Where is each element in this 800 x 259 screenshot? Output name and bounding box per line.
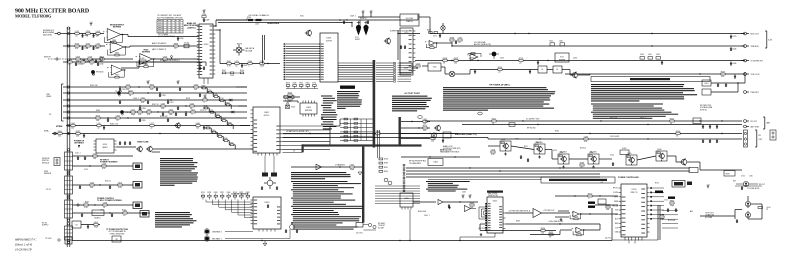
svg-text:VCO: VCO: [560, 57, 564, 59]
capacitor C512: [527, 158, 529, 162]
wire eeprom links: [283, 97, 300, 103]
label RF INJ FROM RF BOARD: [409, 161, 426, 166]
wire ASFIC top to +5V bus: [213, 19, 247, 27]
wire ft row 1: [73, 155, 134, 157]
resistor R241 on bus: [255, 19, 262, 26]
capacitor C273: [175, 112, 177, 116]
label table header TX DIVERSITY: [157, 14, 183, 19]
wire reset row: [52, 133, 253, 134]
label PWR SENSOR: [44, 171, 52, 175]
svg-text:FRAC-N: FRAC-N: [406, 20, 413, 23]
resistor R230: [202, 14, 206, 21]
IC U101 reset: [94, 139, 117, 153]
svg-text:220: 220: [721, 76, 724, 78]
svg-text:C565: C565: [90, 182, 94, 184]
capacitor C247: [241, 64, 247, 68]
wire buffer out: [443, 201, 478, 202]
capacitor C407: [455, 40, 457, 44]
svg-text:R103: R103: [222, 118, 226, 120]
svg-text:L370: L370: [235, 61, 239, 63]
label POWER UP ON RESET: [74, 141, 85, 149]
capacitor C304 polarized: [363, 21, 368, 36]
resistor R278: [194, 84, 198, 91]
diode CR703 harmonic filter: [733, 181, 765, 187]
capacitor C702: [667, 208, 669, 212]
crystal Y301 mcu clock: [264, 177, 276, 189]
resistor R117: [118, 182, 123, 189]
resistor R285: [196, 123, 200, 130]
svg-text:3.4V: 3.4V: [768, 40, 773, 42]
label TX RF OUT to ant: [705, 213, 714, 219]
resistor R113: [102, 163, 106, 170]
svg-text:(CONTROL PWR SET): (CONTROL PWR SET): [443, 148, 461, 150]
wire final chain: [637, 156, 742, 170]
svg-text:uP WATCHDOG A PWR CNTL: uP WATCHDOG A PWR CNTL: [286, 130, 309, 133]
component cluster bar bottom RX BUSY: [356, 223, 386, 235]
resistor R456: [588, 193, 592, 200]
resistor R221: [76, 56, 80, 63]
capacitor cluster bus line 2: [159, 93, 201, 97]
svg-text:R267 1K: R267 1K: [152, 104, 159, 106]
svg-text:RESET LINE: RESET LINE: [137, 142, 149, 144]
connector J402 TRB MOD: [741, 45, 759, 48]
capacitor C252: [75, 62, 81, 66]
box test port: [724, 171, 735, 177]
svg-text:C267: C267: [170, 102, 174, 104]
wire loop filter top: [358, 14, 400, 17]
capacitor C210: [177, 37, 183, 41]
resistor stack RN306: [379, 158, 388, 173]
wire to ant switch: [700, 215, 733, 217]
label speckle bus lines: [90, 85, 206, 126]
wire ant sw loops: [733, 196, 762, 219]
svg-text:GREEN WIRE: GREEN WIRE: [267, 23, 280, 25]
svg-text:ADJ 3dB: ADJ 3dB: [246, 49, 254, 52]
svg-text:L263: L263: [116, 115, 120, 117]
svg-text:18: 18: [443, 63, 445, 65]
label ASFIC RX AUDIO: [152, 42, 167, 51]
svg-text:TX DATA: TX DATA: [115, 90, 123, 93]
svg-text:BOT: BOT: [733, 181, 736, 183]
label U DATA BUS: [335, 164, 346, 167]
capacitor C706: [736, 219, 738, 223]
label MODEM INPUT BUFFER: [110, 25, 125, 29]
resistor network RN303 cascade: [205, 126, 235, 149]
label CUSTOM VERSION: [231, 194, 249, 196]
svg-text:100: 100: [454, 63, 457, 65]
capacitor C511: [520, 155, 522, 159]
resistor R501: [492, 118, 496, 125]
box U601 pwr ctl out: [702, 80, 711, 86]
svg-text:R132: R132: [115, 75, 119, 77]
connector J103: [77, 204, 79, 206]
capacitor C311 bus: [367, 20, 369, 24]
svg-text:R723: R723: [519, 58, 523, 60]
capacitor C110: [77, 156, 79, 160]
svg-text:REF: REF: [615, 223, 618, 225]
svg-text:R454: R454: [541, 228, 545, 230]
notes text numbered list main: [291, 181, 363, 230]
svg-text:(NO CONNECTION): (NO CONNECTION): [158, 36, 175, 38]
label TX 5V: [46, 189, 52, 191]
capacitor C710 top: [741, 186, 743, 190]
resistor R277: [203, 97, 207, 104]
resistor R705: [758, 207, 763, 209]
svg-text:R316: R316: [150, 84, 154, 86]
resistor R203: [86, 31, 90, 38]
wire mod line long: [419, 17, 505, 34]
label bottom mid speckle: [418, 192, 520, 223]
wire u450 to rail: [409, 210, 410, 242]
label DA-780x 3: [590, 151, 597, 154]
svg-text:R448: R448: [144, 64, 148, 66]
svg-text:R428: R428: [443, 58, 447, 60]
svg-text:DA-7805: DA-7805: [536, 141, 543, 144]
dark connector block CR101: [133, 163, 142, 170]
box FL700: [672, 181, 692, 188]
resistor R306: [288, 96, 292, 103]
capacitor C703: [675, 208, 677, 212]
label RX AUDIO RETURN: [160, 59, 180, 62]
ellipse callout marker 2: [418, 116, 422, 119]
wire ft row 5: [73, 212, 151, 213]
IC U451 DAC: [485, 197, 505, 233]
label +3.4V TX: [766, 207, 771, 211]
svg-text:R683: R683: [246, 192, 250, 194]
wire ctl line A: [283, 133, 742, 134]
svg-text:10: 10: [492, 123, 494, 125]
label FREQ SYNTH MODULE: [42, 158, 50, 164]
wire bus line 5: [63, 111, 247, 113]
svg-text:C886: C886: [90, 59, 94, 61]
svg-text:C114: C114: [84, 169, 88, 171]
svg-text:L716: L716: [96, 43, 100, 45]
notes text mux communication: [291, 172, 351, 179]
svg-text:R887: R887: [202, 86, 206, 88]
wire aux line y62: [63, 61, 200, 63]
svg-text:R214: R214: [220, 98, 224, 100]
capacitor C214: [92, 46, 98, 50]
svg-text:R463: R463: [516, 221, 520, 223]
svg-text:CLK: CLK: [615, 227, 618, 229]
dark boxes below mcu: [262, 156, 277, 177]
svg-text:C489: C489: [205, 20, 209, 22]
label RESET LINE: [137, 142, 149, 144]
notes text mid right of column: [155, 212, 196, 228]
svg-text:L674: L674: [131, 109, 135, 111]
resistor R510: [491, 149, 496, 156]
diode CR701 antenna switch: [745, 200, 750, 208]
notes box POWER SET CONTROL LOGIC: [428, 177, 615, 183]
svg-text:R470: R470: [427, 29, 431, 31]
svg-text:C524: C524: [610, 155, 614, 157]
capacitor C431: [537, 61, 539, 65]
svg-text:OPEN / SHORTED: OPEN / SHORTED: [110, 233, 125, 235]
svg-text:C745: C745: [741, 176, 745, 178]
svg-text:C259: C259: [163, 56, 167, 58]
svg-text:L214: L214: [75, 31, 79, 33]
resistor R312: [431, 136, 435, 143]
notes box POWER CONTROL title: [591, 77, 710, 82]
nested feedback loops: [479, 207, 487, 219]
svg-text:C258: C258: [103, 202, 107, 204]
svg-text:R814: R814: [100, 56, 104, 58]
box DC coupler: [693, 118, 701, 124]
svg-text:R269: R269: [96, 110, 100, 112]
resistor R406: [458, 37, 462, 44]
resistor R267: [161, 103, 165, 110]
svg-text:+5V TEST POINT: +5V TEST POINT: [404, 93, 421, 95]
svg-text:R212: R212: [96, 115, 100, 117]
capacitor C483 bypass: [730, 62, 736, 66]
op-amp U203 return buffer: [107, 65, 126, 78]
svg-text:RF OUT: RF OUT: [751, 121, 759, 123]
label POWER CONTROLLER: [618, 177, 639, 179]
capacitor C331: [276, 186, 278, 190]
svg-text:BUFFER: BUFFER: [559, 59, 566, 61]
svg-text:C461 .1: C461 .1: [424, 215, 430, 217]
resistor R504: [676, 131, 680, 138]
svg-text:R282 2.2K: R282 2.2K: [110, 124, 119, 126]
svg-text:.22: .22: [96, 36, 99, 38]
label BIAS LOOP: [443, 145, 461, 150]
wire ft row 4: [73, 204, 134, 205]
label DAC controller: [488, 192, 498, 197]
IC U200 ASFIC: [197, 24, 215, 84]
capacitor cluster bus line 3: [119, 100, 174, 104]
resistor R205: [96, 31, 100, 38]
svg-text:+TX PWR SET (SEE NOTE 4): +TX PWR SET (SEE NOTE 4): [508, 211, 531, 213]
ground symbols bottom area: [448, 206, 562, 236]
svg-text:.22: .22: [150, 128, 153, 130]
resistor R213: [86, 43, 90, 50]
resistor R272: [169, 109, 173, 116]
svg-text:R378: R378: [660, 214, 664, 216]
svg-text:R502: R502: [670, 118, 674, 120]
svg-text:.22: .22: [68, 64, 71, 66]
svg-text:C846: C846: [732, 63, 736, 65]
shield bus right extension: [399, 117, 401, 146]
svg-text:R340: R340: [227, 192, 231, 194]
connector J101 swb+: [44, 131, 56, 135]
wire synth col: [263, 35, 265, 64]
resistor R211: [75, 43, 79, 50]
svg-text:C641: C641: [71, 123, 75, 125]
IC U450 interface: [400, 193, 413, 210]
junction dots mid right lines: [451, 33, 548, 61]
wire ant sw top link: [735, 185, 762, 187]
pin column P302 right: [394, 62, 396, 82]
svg-text:L324: L324: [81, 59, 85, 61]
wire mcu aux row: [283, 151, 303, 153]
test point TP202 mod in: [91, 70, 104, 75]
svg-text:L853: L853: [94, 222, 98, 224]
svg-text:BUFFER: BUFFER: [142, 52, 151, 54]
wire ASFIC col down: [215, 29, 221, 63]
svg-text:R170: R170: [201, 192, 205, 194]
svg-text:+13 B+ (SEE NOTE): +13 B+ (SEE NOTE): [548, 221, 564, 223]
resistor R405: [450, 37, 454, 44]
label +5V DIGITAL: [248, 14, 270, 17]
capacitor C452: [267, 204, 269, 208]
capacitor C263: [156, 87, 158, 91]
component cluster left of EEPROM: [284, 96, 295, 109]
svg-text:RX AUDIO RETURN (C): RX AUDIO RETURN (C): [160, 59, 180, 62]
labels u700 left pins: [613, 188, 619, 234]
svg-text:220: 220: [58, 136, 61, 138]
transistor Q203 balance attenuator: [233, 45, 245, 56]
svg-text:C268: C268: [142, 108, 146, 110]
capacitor C450: [448, 204, 450, 208]
mixer M401: [445, 71, 459, 77]
resistor R124: [94, 222, 99, 229]
resistor R281: [71, 123, 75, 130]
title 900 MHz EXCITER BOARD: [15, 8, 89, 14]
bracket antenna: [763, 117, 771, 129]
wire y205 run: [595, 204, 618, 206]
svg-text:R247: R247: [222, 70, 226, 72]
transistor Q304: [434, 125, 441, 132]
test point TP201: [171, 56, 173, 59]
IC U401 loop filter: [400, 14, 419, 26]
svg-text:ASFIC RX AUDIO: ASFIC RX AUDIO: [152, 42, 167, 45]
wire mod out line right: [505, 33, 745, 34]
svg-text:R370: R370: [588, 193, 592, 195]
diode D301: [228, 99, 232, 102]
capacitor C410: [474, 70, 476, 74]
label 5V SUPPLY PROT: [100, 160, 118, 164]
filter FL401: [538, 66, 547, 73]
capacitor C286: [203, 126, 205, 130]
svg-text:100: 100: [71, 128, 74, 130]
svg-text:C710 SEE NOTE: C710 SEE NOTE: [747, 188, 759, 190]
resistor R262: [150, 84, 154, 91]
feedthrough filter FL103: [65, 197, 73, 222]
filter FL501: [509, 123, 515, 127]
svg-text:L605: L605: [191, 109, 195, 111]
svg-text:C471: C471: [433, 36, 437, 38]
op-amp U457 second buffer: [465, 206, 477, 212]
capacitor cluster bus line 4: [139, 106, 179, 110]
wire stub right edge: [200, 62, 206, 66]
svg-text:R839: R839: [228, 122, 232, 124]
box U456 ref: [598, 199, 606, 204]
capacitor C313: [442, 139, 444, 143]
svg-text:R206: R206: [577, 232, 581, 234]
svg-text:9.6V: 9.6V: [615, 210, 618, 212]
svg-text:AFL: AFL: [690, 210, 693, 213]
notes text synth programming list: [321, 96, 337, 130]
capacitor C266: [147, 100, 149, 104]
box U602 pwr ctl out: [702, 89, 711, 95]
connector J406 test: [744, 125, 760, 128]
svg-text:R880: R880: [224, 138, 228, 140]
capacitor cluster bus line 1: [119, 87, 181, 91]
connector column J408 rf out: [744, 130, 748, 147]
svg-text:L611: L611: [141, 97, 145, 99]
IC U700 power control: [619, 184, 650, 241]
op-amp U201B aux buffer: [106, 41, 127, 56]
svg-text:C531 100PF: C531 100PF: [610, 136, 619, 138]
dark connector block CR102: [133, 182, 142, 189]
gnd amp2: [538, 156, 541, 159]
svg-text:R169: R169: [214, 192, 218, 194]
resistor R505: [584, 136, 588, 143]
junction dots bus lines: [127, 86, 186, 118]
svg-text:U200: U200: [204, 44, 209, 46]
notes text EEPROM programming: [337, 86, 362, 109]
diode D302: [230, 111, 234, 114]
svg-text:R208: R208: [293, 83, 297, 85]
capacitor C105: [119, 141, 121, 145]
resistor R310: [423, 119, 427, 126]
resistor R410: [416, 63, 420, 70]
svg-text:uPROC: uPROC: [264, 115, 271, 117]
svg-text:R545: R545: [204, 106, 208, 108]
label BAL NET A: [246, 47, 255, 52]
transistor Q302: [384, 38, 391, 45]
svg-text:5V SUPER FLT: 5V SUPER FLT: [751, 60, 764, 62]
wire second input line: [63, 45, 105, 47]
svg-text:C697: C697: [147, 109, 151, 111]
svg-text:(SECURE): (SECURE): [43, 34, 52, 36]
diode cascade to U305: [206, 200, 252, 218]
wire u453 out: [542, 212, 571, 214]
svg-text:SQ DET: SQ DET: [378, 227, 384, 229]
test point TP204: [120, 110, 134, 115]
svg-text:C433: C433: [500, 58, 504, 60]
svg-text:U403: U403: [404, 68, 408, 70]
svg-text:TRB MOD: TRB MOD: [751, 46, 760, 48]
resistor R112: [93, 153, 97, 160]
connector J404 LOCK: [744, 73, 761, 76]
svg-text:DA-7802: DA-7802: [560, 151, 567, 154]
svg-text:SUPPLY: SUPPLY: [42, 225, 49, 227]
capacitor C303 polarized: [356, 21, 361, 36]
label top bus speckle: [300, 16, 366, 20]
resistor R428 line3: [443, 58, 447, 65]
wire ft row 3: [73, 184, 134, 185]
svg-text:R674: R674: [115, 53, 119, 55]
capacitor C114: [79, 185, 81, 189]
svg-text:R406: R406: [384, 171, 388, 173]
svg-text:C266 .1: C266 .1: [133, 98, 139, 100]
svg-text:MOD OUT: MOD OUT: [751, 33, 760, 35]
resistor R307: [350, 164, 355, 171]
svg-text:R369: R369: [212, 130, 216, 132]
capacitor C514: [612, 162, 614, 166]
wire vco low: [415, 60, 745, 62]
left feedthrough column: [67, 27, 70, 247]
svg-text:SWB+: SWB+: [44, 131, 49, 133]
svg-text:R564: R564: [216, 114, 220, 116]
svg-text:R400: R400: [226, 102, 230, 104]
svg-text:L111: L111: [97, 123, 101, 125]
svg-text:C376: C376: [68, 59, 72, 61]
notes text power control paragraph: [591, 84, 697, 102]
svg-text:R523 10: R523 10: [580, 148, 586, 150]
capacitor C485: [734, 75, 736, 79]
svg-text:SYNTH: SYNTH: [326, 40, 333, 42]
svg-text:+TX PWR OUT: +TX PWR OUT: [543, 210, 554, 212]
capacitor C116: [109, 185, 111, 189]
mixer M402: [431, 133, 436, 138]
wire bus line 4: [63, 105, 247, 107]
amp stage Q502: [534, 142, 545, 154]
callout flag note: [358, 172, 362, 175]
op-amp U454: [569, 211, 582, 220]
resistor R305: [288, 92, 292, 99]
